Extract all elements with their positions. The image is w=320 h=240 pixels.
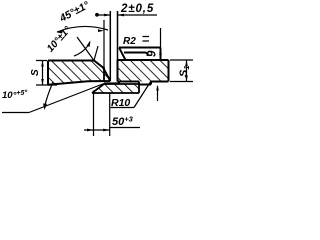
45deg bevel extension line xyxy=(77,37,94,61)
dimension S1 line with arrows xyxy=(186,60,188,82)
backing ring (hatched) xyxy=(92,84,139,93)
gap dimension line xyxy=(96,14,157,16)
45deg angle arc with arrows xyxy=(57,26,108,32)
dimension 50+3 line with arrows xyxy=(84,128,140,131)
ink dot at start of gap dimension line xyxy=(95,13,99,17)
vertical extension line x104 xyxy=(103,20,105,67)
dimension 50+3 extension lines xyxy=(94,91,110,137)
svg-text:9: 9 xyxy=(147,50,159,57)
gap dimension extension lines xyxy=(110,11,117,81)
left pipe wall (hatched section) xyxy=(48,61,110,85)
horizontal reference line for 10deg angle xyxy=(2,112,29,114)
svg-text:R2: R2 xyxy=(123,36,136,47)
dimension 9 arrows xyxy=(159,48,162,54)
R10 leader line xyxy=(134,81,151,108)
dimension S extension lines xyxy=(36,61,57,86)
arc arrow of 10deg+5deg angle xyxy=(45,82,54,107)
root face of left pipe bevel xyxy=(103,67,105,81)
short bevel extension line xyxy=(94,46,98,61)
10deg angle arc with arrow xyxy=(74,42,90,56)
collar inner line xyxy=(124,53,148,57)
backing ring taper extension line xyxy=(29,84,104,113)
dimension 9 extension line xyxy=(160,28,162,60)
svg-text:S: S xyxy=(30,69,41,76)
right pipe wall (hatched section) xyxy=(118,60,169,82)
svg-text:2±0,5: 2±0,5 xyxy=(120,3,154,15)
collar (thickened end of right pipe) xyxy=(119,48,161,61)
R10 shelf line xyxy=(111,107,135,109)
dimension S1 extension lines xyxy=(170,60,193,82)
groove arrow xyxy=(157,86,159,101)
dimension S line with arrows xyxy=(42,61,44,86)
backing ring top line across gap xyxy=(104,82,120,84)
